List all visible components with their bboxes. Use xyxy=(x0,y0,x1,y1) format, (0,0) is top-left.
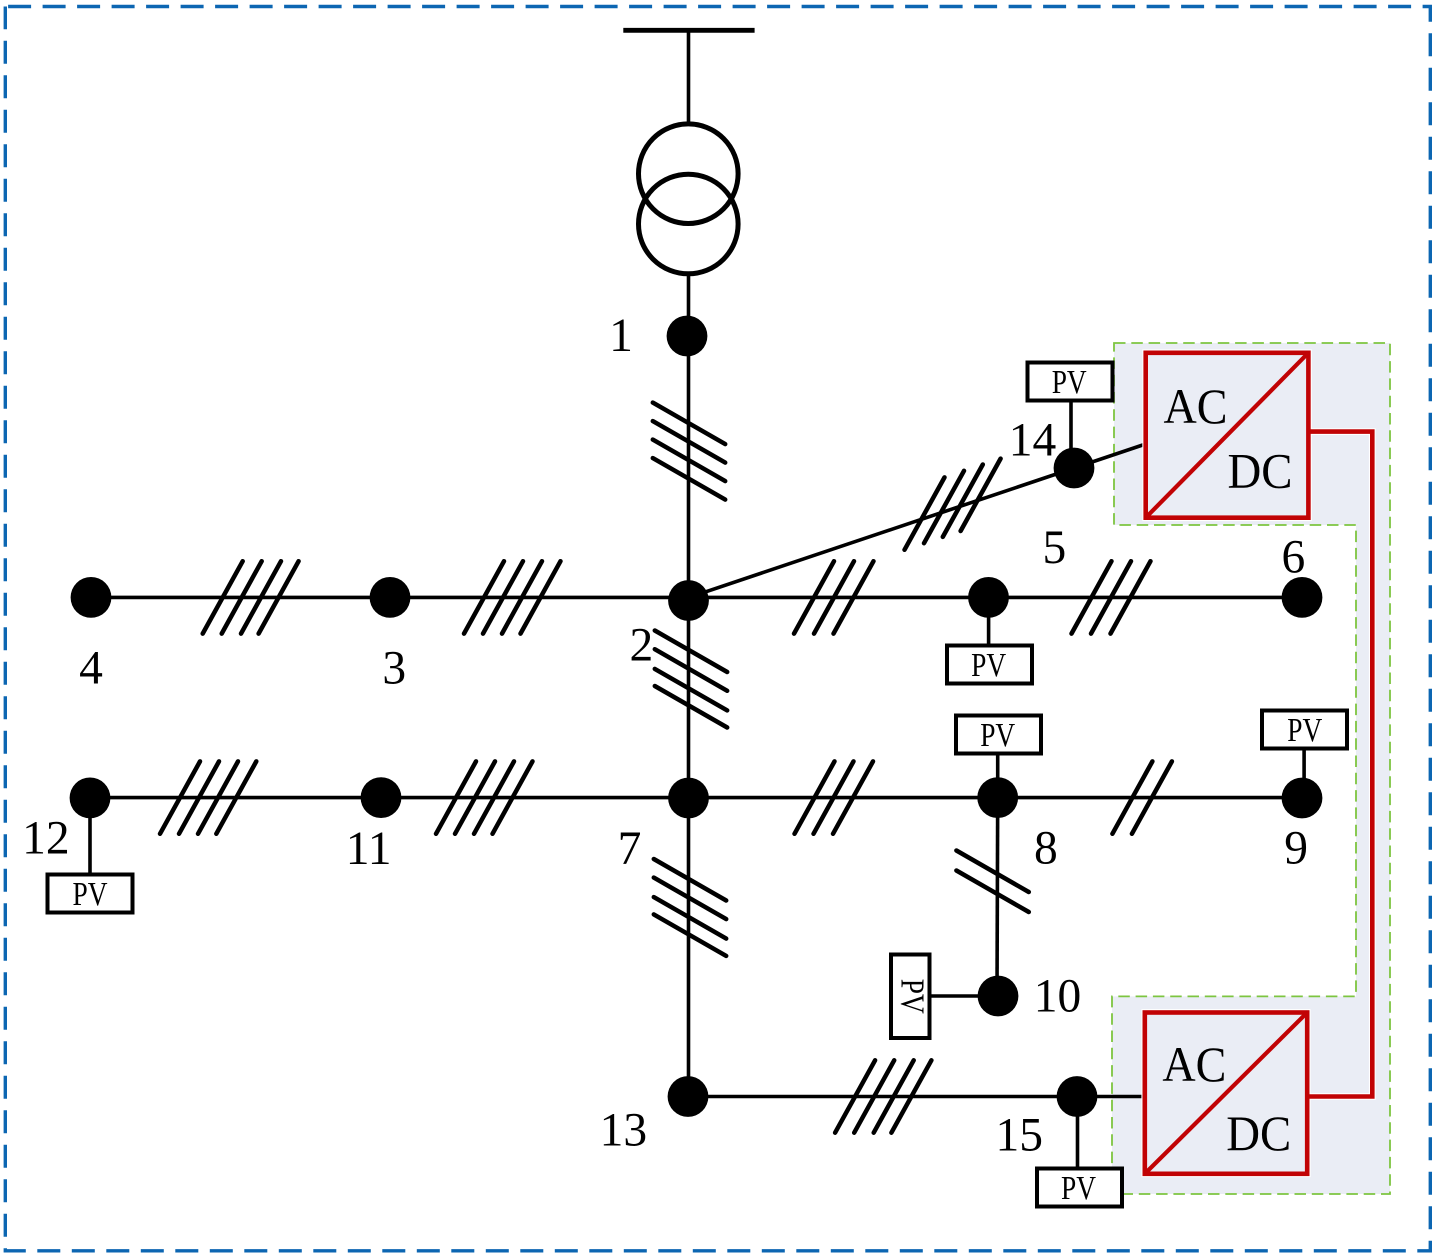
svg-text:AC: AC xyxy=(1162,1037,1226,1092)
svg-text:AC: AC xyxy=(1164,379,1228,434)
svg-text:9: 9 xyxy=(1284,823,1308,875)
svg-text:PV: PV xyxy=(73,876,108,913)
svg-text:4: 4 xyxy=(79,642,103,694)
svg-text:14: 14 xyxy=(1009,414,1057,466)
svg-text:6: 6 xyxy=(1282,532,1306,584)
svg-text:11: 11 xyxy=(346,823,392,875)
svg-text:12: 12 xyxy=(22,812,70,864)
svg-text:10: 10 xyxy=(1034,971,1082,1023)
svg-text:3: 3 xyxy=(382,643,406,695)
svg-text:2: 2 xyxy=(630,619,654,671)
svg-text:PV: PV xyxy=(971,647,1006,684)
svg-text:13: 13 xyxy=(600,1105,648,1157)
svg-text:PV: PV xyxy=(1052,364,1087,401)
svg-text:PV: PV xyxy=(980,717,1015,754)
svg-text:7: 7 xyxy=(618,823,642,875)
svg-text:DC: DC xyxy=(1226,1106,1291,1161)
svg-text:15: 15 xyxy=(996,1110,1044,1162)
svg-text:PV: PV xyxy=(894,979,931,1014)
svg-text:PV: PV xyxy=(1061,1170,1096,1207)
svg-text:8: 8 xyxy=(1034,823,1058,875)
svg-text:DC: DC xyxy=(1228,444,1293,499)
svg-text:1: 1 xyxy=(609,310,633,362)
svg-text:PV: PV xyxy=(1287,712,1322,749)
svg-text:5: 5 xyxy=(1043,522,1067,574)
